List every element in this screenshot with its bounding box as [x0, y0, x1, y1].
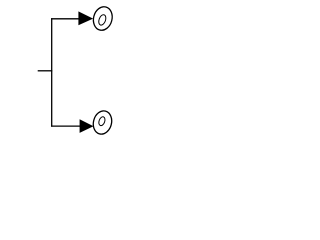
wire: left input stub: [38, 70, 53, 72]
arrowhead bottom: [80, 119, 94, 133]
wire: vertical bus: [51, 18, 53, 127]
label 0 (bottom): [98, 116, 106, 127]
wire: bottom branch: [51, 125, 80, 127]
arrowhead top: [78, 11, 93, 25]
node 0 (top) outer circle: [91, 5, 115, 33]
label 0 (top): [97, 14, 107, 26]
wire: top branch: [51, 18, 79, 20]
node 0 (bottom) outer circle: [91, 109, 114, 136]
